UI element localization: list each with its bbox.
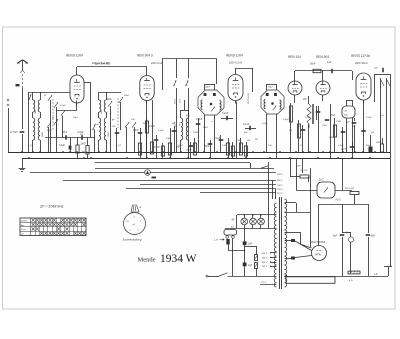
svg-text:MΩ: MΩ xyxy=(344,115,348,117)
svg-text:0,1µF: 0,1µF xyxy=(262,123,268,125)
svg-text:30pF: 30pF xyxy=(124,95,130,97)
svg-text:125 V: 125 V xyxy=(262,262,268,264)
svg-text:1nF: 1nF xyxy=(95,124,99,126)
svg-text:5nF: 5nF xyxy=(380,115,384,117)
svg-text:2M: 2M xyxy=(288,130,292,132)
svg-text:0,001: 0,001 xyxy=(173,99,175,104)
svg-text:Mende: Mende xyxy=(138,257,156,264)
svg-text:2µF: 2µF xyxy=(247,243,253,245)
svg-text:RENS 1264: RENS 1264 xyxy=(247,93,250,104)
svg-text:20pF: 20pF xyxy=(72,117,79,119)
svg-text:50nF: 50nF xyxy=(47,130,53,132)
svg-text:220 V: 220 V xyxy=(276,180,283,182)
svg-text:0,3µF: 0,3µF xyxy=(196,118,203,121)
svg-text:50nF: 50nF xyxy=(366,145,372,147)
svg-text:10k 1W: 10k 1W xyxy=(300,170,308,172)
svg-text:4,7nF: 4,7nF xyxy=(10,130,17,134)
svg-text:REN 904 d: REN 904 d xyxy=(137,54,153,58)
svg-text:50pF: 50pF xyxy=(268,87,274,89)
svg-text:220 V: 220 V xyxy=(261,253,268,255)
svg-text:200V 30mA: 200V 30mA xyxy=(354,62,368,65)
svg-text:RENS 1264: RENS 1264 xyxy=(66,54,83,58)
svg-text:0,2µF: 0,2µF xyxy=(283,119,289,121)
svg-text:0,2µF: 0,2µF xyxy=(59,145,66,147)
svg-text:0,2µF: 0,2µF xyxy=(222,112,229,115)
svg-text:0,1M: 0,1M xyxy=(305,117,310,119)
svg-text:2000: 2000 xyxy=(41,131,43,138)
svg-text:125 V: 125 V xyxy=(277,189,283,191)
svg-text:150 V: 150 V xyxy=(277,185,283,187)
svg-text:0,1µF: 0,1µF xyxy=(243,123,250,126)
svg-text:Dr.C: Dr.C xyxy=(319,179,324,182)
svg-text:1M: 1M xyxy=(371,132,374,134)
svg-text:(geht über Bd.): (geht über Bd.) xyxy=(95,63,111,66)
svg-text:0,2M: 0,2M xyxy=(149,125,154,128)
svg-text:3MΩ: 3MΩ xyxy=(82,152,87,154)
svg-text:1µF: 1µF xyxy=(327,61,332,64)
svg-text:0,5M: 0,5M xyxy=(236,140,241,142)
svg-text:Anr.: Anr. xyxy=(21,224,25,227)
svg-text:5nF: 5nF xyxy=(244,132,248,134)
svg-text:2MΩ: 2MΩ xyxy=(80,144,86,146)
svg-text:8µF: 8µF xyxy=(371,236,376,238)
svg-text:RENS 1374d: RENS 1374d xyxy=(351,54,370,58)
svg-text:4nF: 4nF xyxy=(186,114,190,117)
svg-text:50nF: 50nF xyxy=(204,145,210,148)
svg-text:50nF: 50nF xyxy=(203,127,209,129)
svg-text:20µF: 20µF xyxy=(340,149,347,151)
svg-text:1934 W: 1934 W xyxy=(160,253,197,265)
svg-text:0,5M: 0,5M xyxy=(222,145,227,147)
svg-text:0,1µF: 0,1µF xyxy=(214,137,221,140)
svg-text:0,3M: 0,3M xyxy=(336,121,341,123)
svg-text:8µF: 8µF xyxy=(333,236,338,238)
svg-text:REN 904: REN 904 xyxy=(316,55,329,59)
svg-text:L.A.: L.A. xyxy=(214,238,219,241)
svg-text:50nF: 50nF xyxy=(143,123,149,125)
svg-text:Wellen: Wellen xyxy=(21,220,28,222)
svg-text:Sockelschaltung: Sockelschaltung xyxy=(123,238,142,242)
svg-text:0,1µF: 0,1µF xyxy=(158,130,164,132)
svg-text:2M: 2M xyxy=(171,123,175,125)
svg-text:Fd.C: Fd.C xyxy=(336,199,341,202)
svg-text:1M: 1M xyxy=(247,140,250,142)
svg-text:50pF: 50pF xyxy=(205,87,211,89)
svg-text:220V~: 220V~ xyxy=(276,174,284,176)
svg-text:ZF = 1048 kHz: ZF = 1048 kHz xyxy=(39,205,64,209)
svg-text:2µF: 2µF xyxy=(373,68,378,70)
svg-text:5nF: 5nF xyxy=(331,114,336,117)
svg-text:0,3M: 0,3M xyxy=(166,138,171,140)
svg-text:4 Ω: 4 Ω xyxy=(349,279,353,282)
svg-text:0,2M: 0,2M xyxy=(193,132,198,134)
svg-text:MΩ 0,1W: MΩ 0,1W xyxy=(345,188,355,190)
svg-text:50nF: 50nF xyxy=(133,129,139,132)
svg-text:0,1µF: 0,1µF xyxy=(338,145,344,147)
svg-text:4µF: 4µF xyxy=(346,121,350,124)
svg-text:220V 2mA: 220V 2mA xyxy=(150,62,163,65)
svg-text:REN 914: REN 914 xyxy=(288,55,301,59)
svg-text:2M: 2M xyxy=(302,98,306,101)
svg-text:110 V: 110 V xyxy=(262,266,268,268)
svg-text:50nF: 50nF xyxy=(296,166,302,168)
svg-text:0,1µF: 0,1µF xyxy=(366,117,372,119)
svg-text:150 V: 150 V xyxy=(262,258,268,260)
svg-text:2µF: 2µF xyxy=(247,265,253,267)
svg-text:L.S.: L.S. xyxy=(374,274,378,276)
svg-text:100V 0,2mA: 100V 0,2mA xyxy=(229,62,243,65)
svg-text:110 V: 110 V xyxy=(261,282,267,284)
svg-text:0,1µF: 0,1µF xyxy=(60,105,66,107)
svg-text:110 V: 110 V xyxy=(277,193,283,195)
svg-text:1M: 1M xyxy=(255,139,258,141)
svg-text:1nF: 1nF xyxy=(268,145,272,147)
svg-text:50nF: 50nF xyxy=(310,63,316,66)
svg-text:2000: 2000 xyxy=(107,131,109,138)
svg-text:6nF: 6nF xyxy=(352,126,356,128)
svg-text:4V: 4V xyxy=(232,219,235,222)
svg-text:RENS 1264: RENS 1264 xyxy=(226,54,243,58)
svg-text:0,5M: 0,5M xyxy=(329,137,334,139)
svg-text:50nF: 50nF xyxy=(178,145,184,147)
svg-text:70pF: 70pF xyxy=(322,125,328,127)
